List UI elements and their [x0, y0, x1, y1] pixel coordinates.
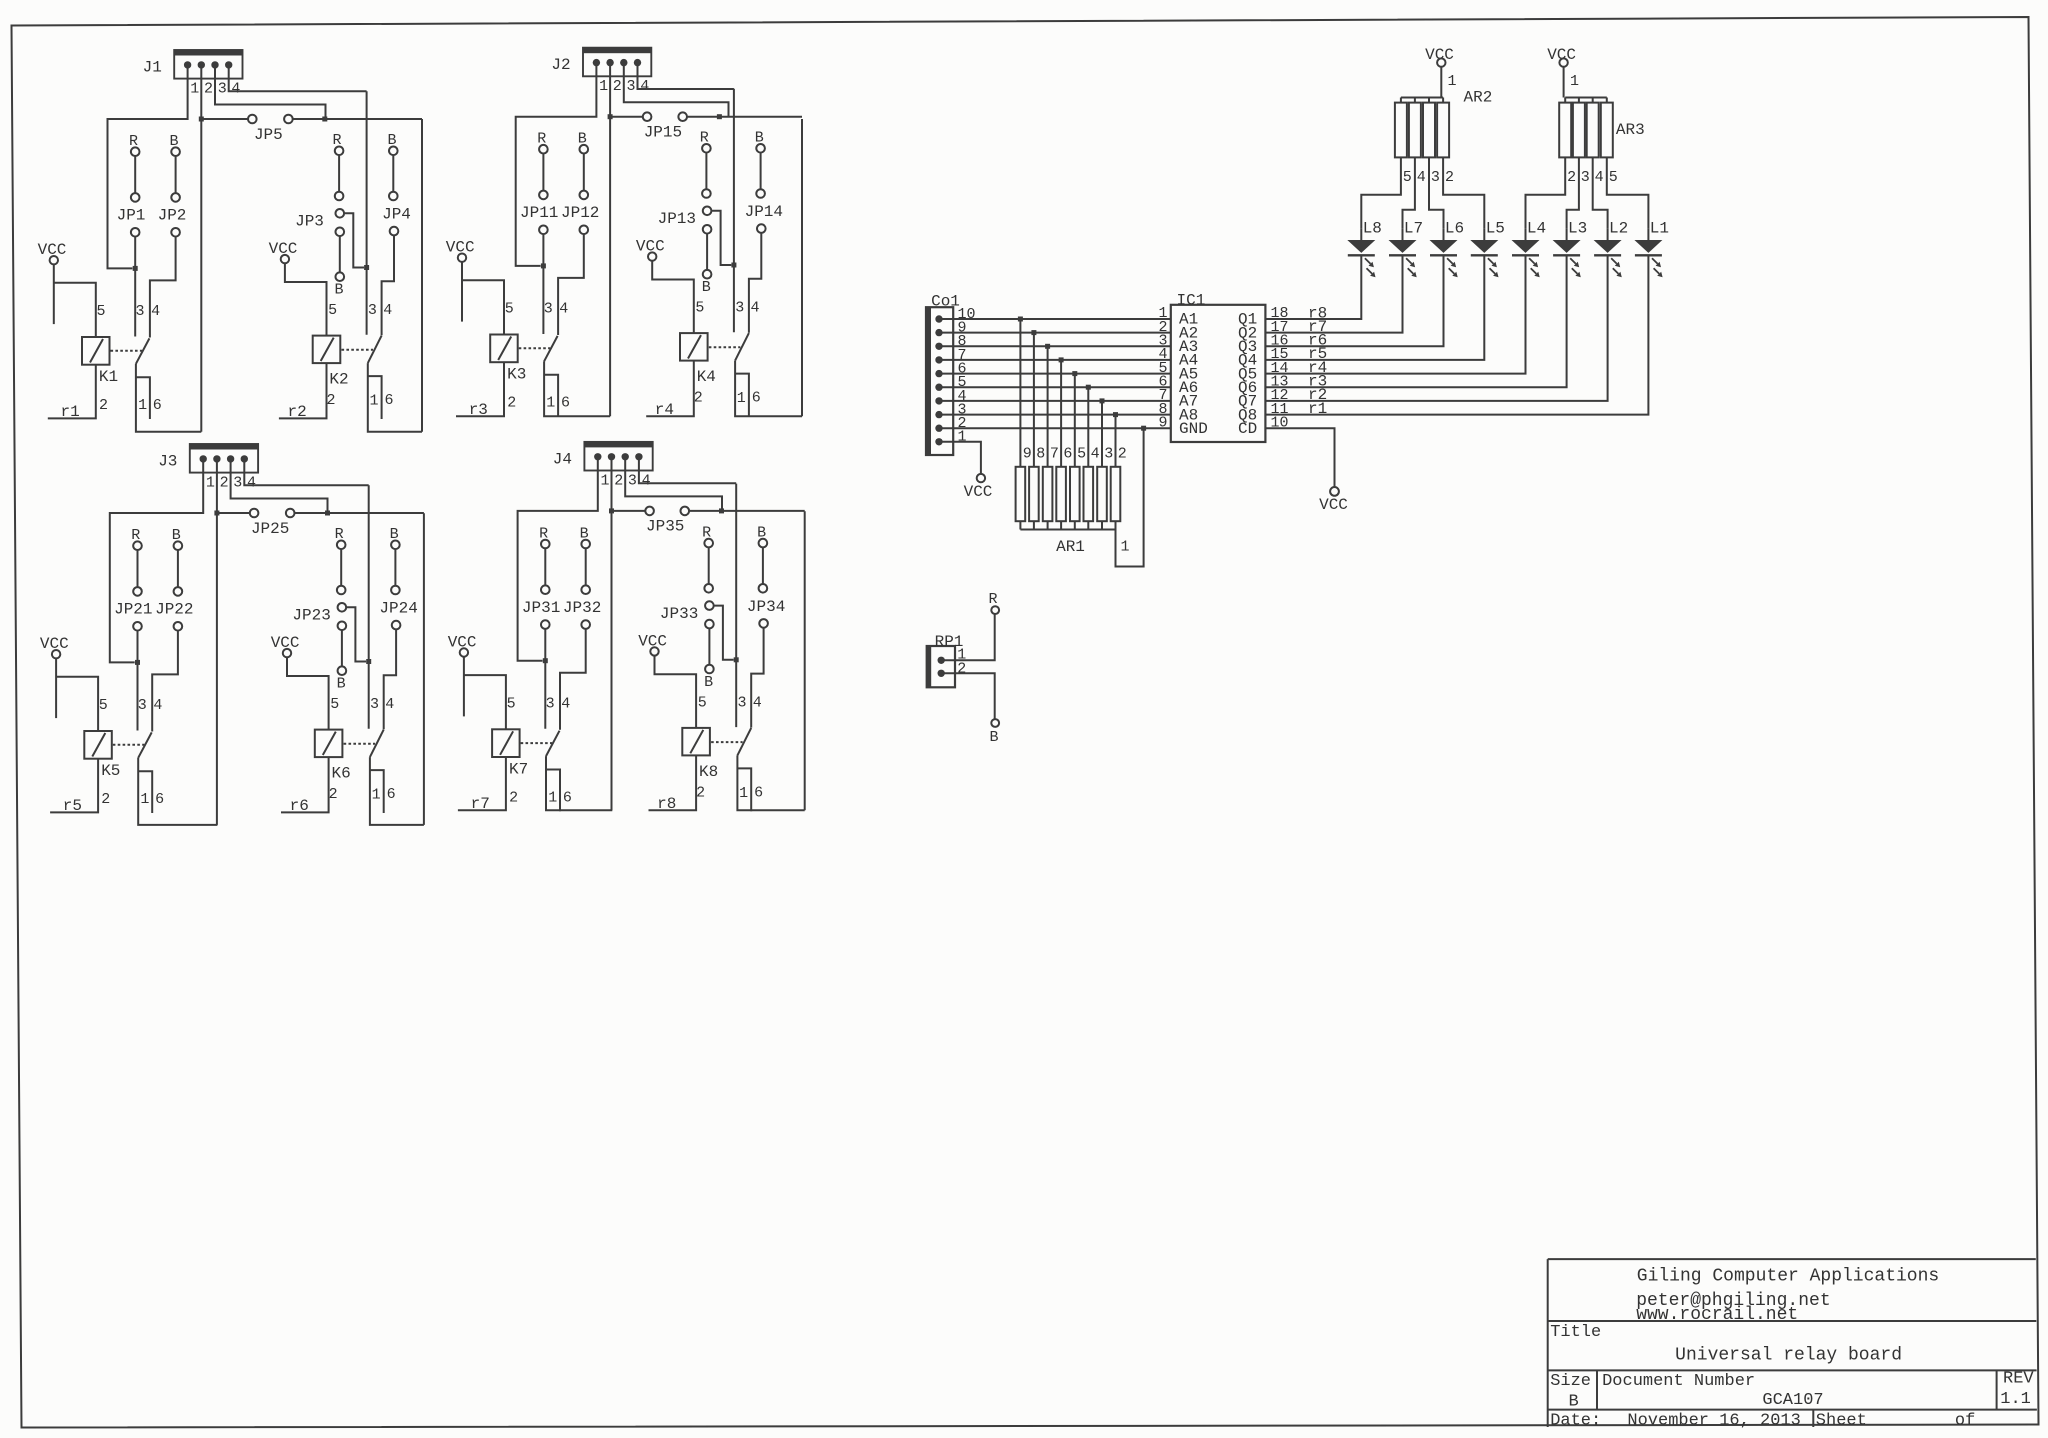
switch blade — [735, 333, 749, 361]
AR3 common bus — [1565, 97, 1607, 99]
svg-text:3: 3 — [737, 695, 746, 712]
svg-text:4: 4 — [1091, 445, 1100, 462]
svg-text:3: 3 — [546, 696, 555, 713]
svg-text:L6: L6 — [1445, 220, 1464, 238]
svg-text:7: 7 — [1050, 445, 1059, 462]
svg-text:4: 4 — [753, 695, 762, 712]
wire IC1 Q8 / net r1 — [1265, 256, 1648, 415]
wire Co1 pin 3 to IC1 pin 8 — [939, 414, 1171, 416]
contact 6 stub — [138, 771, 152, 813]
junction — [364, 265, 369, 270]
svg-text:K7: K7 — [509, 760, 528, 778]
svg-text:5: 5 — [1077, 445, 1086, 462]
wire Co1 pin 1 to VCC — [939, 442, 981, 474]
wire J1 pin 1 — [108, 65, 188, 269]
coil-contact link — [711, 741, 743, 743]
svg-text:Universal relay board: Universal relay board — [1675, 1346, 1902, 1366]
wire JP22 to contact 4 — [152, 631, 178, 732]
wire J3 pin 4 — [244, 459, 368, 485]
svg-text:Co1: Co1 — [931, 293, 960, 311]
svg-text:1: 1 — [1120, 539, 1129, 556]
junction — [609, 508, 614, 513]
switch blade — [737, 728, 751, 756]
wire JP11 to relay pole — [542, 234, 544, 334]
svg-text:JP15: JP15 — [644, 124, 682, 142]
svg-text:4: 4 — [153, 697, 162, 714]
svg-text:AR1: AR1 — [1056, 538, 1085, 556]
svg-text:2: 2 — [614, 472, 623, 489]
junction — [734, 657, 739, 662]
switch blade — [370, 730, 384, 758]
wire J1 pin 3 — [215, 65, 326, 119]
svg-text:JP24: JP24 — [379, 600, 417, 618]
wire IC1 Q1 / net r8 — [1265, 256, 1361, 319]
svg-text:3: 3 — [233, 475, 242, 492]
svg-text:1: 1 — [372, 787, 381, 804]
junction — [608, 114, 613, 119]
node R — [991, 606, 999, 614]
svg-text:JP34: JP34 — [747, 598, 785, 616]
svg-text:IC1: IC1 — [1176, 291, 1205, 309]
svg-text:4: 4 — [231, 81, 240, 98]
wire JP35 to right — [722, 510, 805, 512]
wire AR2.4 to L7 — [1403, 157, 1415, 228]
svg-text:2: 2 — [613, 78, 622, 95]
resistor AR1 element 6 — [1056, 467, 1066, 521]
svg-text:JP5: JP5 — [254, 126, 283, 144]
svg-text:3: 3 — [1431, 169, 1440, 186]
svg-text:K1: K1 — [99, 368, 118, 386]
svg-text:AR3: AR3 — [1616, 121, 1645, 139]
svg-text:5: 5 — [505, 301, 514, 318]
wire J3 pin 3 — [231, 459, 328, 513]
svg-text:1: 1 — [548, 790, 557, 807]
wire J2 pin 1 — [516, 63, 597, 266]
svg-text:2: 2 — [101, 791, 110, 808]
switch blade — [368, 336, 382, 364]
wire pin4 to pole — [368, 485, 370, 729]
svg-text:1: 1 — [369, 393, 378, 410]
svg-text:r2: r2 — [288, 403, 307, 421]
svg-text:5: 5 — [507, 696, 516, 713]
svg-text:6: 6 — [155, 791, 164, 808]
junction — [135, 660, 140, 665]
wire JP14 to contact 4 — [749, 233, 761, 333]
svg-text:JP13: JP13 — [658, 210, 696, 228]
svg-text:r7: r7 — [471, 795, 490, 813]
wire IC1 Q4 / net r5 — [1265, 256, 1484, 360]
contact 6 stub — [136, 377, 150, 419]
svg-text:Title: Title — [1550, 1323, 1601, 1342]
wire JP12 to contact 4 — [558, 234, 584, 335]
wire IC1 Q2 / net r7 — [1265, 256, 1402, 333]
svg-text:B: B — [337, 676, 346, 693]
wire VCC to coil pin 5 — [53, 264, 55, 324]
node B — [991, 719, 999, 727]
svg-text:K6: K6 — [331, 765, 350, 783]
svg-text:2: 2 — [99, 397, 108, 414]
relay coil K2 — [313, 336, 341, 364]
svg-text:6: 6 — [754, 784, 763, 801]
svg-text:JP32: JP32 — [563, 599, 601, 617]
junction — [1072, 371, 1077, 376]
relay coil K3 — [490, 335, 518, 363]
junction — [199, 117, 204, 122]
wire Co1 pin 9 to IC1 pin 2 — [939, 332, 1171, 334]
wire pin4 to pole — [735, 484, 737, 727]
connector J4 — [584, 442, 652, 471]
wire IC1 Q5 / net r4 — [1265, 256, 1525, 374]
svg-text:JP4: JP4 — [382, 206, 411, 224]
svg-text:JP22: JP22 — [155, 601, 193, 619]
svg-text:B: B — [704, 674, 713, 691]
LED L2 — [1594, 240, 1622, 253]
junction — [322, 117, 327, 122]
wire JP4 to contact 4 — [382, 235, 394, 335]
wire J4 pin 4 — [639, 457, 736, 483]
svg-text:K3: K3 — [507, 366, 526, 384]
svg-text:B: B — [989, 729, 998, 746]
wire JP33 to pole junction — [714, 606, 734, 660]
junction — [1100, 398, 1105, 403]
svg-text:JP1: JP1 — [117, 207, 146, 225]
svg-text:1: 1 — [138, 397, 147, 414]
svg-text:3: 3 — [735, 300, 744, 317]
wire JP1 to relay pole — [134, 237, 136, 337]
svg-text:L2: L2 — [1609, 220, 1628, 238]
svg-text:1: 1 — [958, 429, 967, 446]
svg-text:2: 2 — [326, 392, 335, 409]
svg-text:Date:: Date: — [1550, 1411, 1601, 1430]
wire Co1 pin 8 to IC1 pin 3 — [939, 345, 1171, 347]
svg-text:JP25: JP25 — [251, 520, 289, 538]
wire JP13 to pole junction — [711, 211, 731, 265]
svg-text:VCC: VCC — [1319, 496, 1348, 514]
wire AR1 pin 1 to GND row — [1116, 428, 1144, 566]
junction — [541, 263, 546, 268]
svg-text:1: 1 — [1570, 73, 1579, 90]
wire right side of K2 block — [421, 119, 423, 432]
wire J3 pin 1 — [110, 459, 203, 663]
svg-text:3: 3 — [628, 472, 637, 489]
resistor AR3 element 5 — [1601, 103, 1613, 158]
svg-text:2: 2 — [204, 81, 213, 98]
LED L8 — [1347, 240, 1375, 253]
svg-text:3: 3 — [1104, 445, 1113, 462]
svg-text:1: 1 — [1448, 73, 1457, 90]
svg-text:JP11: JP11 — [520, 204, 558, 222]
wire pin4 to pole — [366, 91, 368, 334]
svg-text:1: 1 — [206, 475, 215, 492]
AR2 common bus — [1401, 97, 1443, 99]
wire coil to r7 — [458, 757, 506, 810]
wire J2 pin 4 — [638, 63, 734, 89]
wire JP23 to pole junction — [346, 607, 366, 661]
svg-text:JP35: JP35 — [646, 518, 684, 536]
svg-text:JP31: JP31 — [522, 599, 560, 617]
svg-text:1: 1 — [190, 81, 199, 98]
wire VCC to coil pin 5 — [652, 261, 694, 333]
switch blade — [138, 732, 152, 757]
svg-text:4: 4 — [1595, 169, 1604, 186]
wire AR3.2 to L4 — [1526, 157, 1566, 228]
contact 6 stub — [370, 770, 384, 813]
svg-text:JP23: JP23 — [292, 607, 330, 625]
wire J1 pin 4 — [229, 65, 367, 91]
resistor AR2 element 2 — [1437, 103, 1449, 158]
svg-text:9: 9 — [1158, 414, 1167, 431]
svg-text:8: 8 — [1036, 445, 1045, 462]
wire blade to bottom — [735, 361, 802, 417]
svg-text:of: of — [1955, 1411, 1975, 1430]
svg-text:B: B — [1568, 1392, 1578, 1411]
wire J4 pin 2 — [611, 457, 613, 810]
wire VCC to AR3 pin 1 — [1563, 67, 1565, 98]
wire JP21 to relay pole — [137, 631, 139, 731]
AR1 common bus — [1020, 521, 1115, 529]
junction — [1113, 412, 1118, 417]
svg-text:2: 2 — [220, 475, 229, 492]
junction — [731, 263, 736, 268]
svg-text:r8: r8 — [657, 795, 676, 813]
svg-text:L1: L1 — [1650, 220, 1669, 238]
svg-text:2: 2 — [507, 395, 516, 412]
wire JP31 to relay pole — [544, 629, 546, 729]
svg-text:L4: L4 — [1527, 220, 1546, 238]
svg-text:6: 6 — [1063, 445, 1072, 462]
wire J1 pin 2 — [200, 65, 202, 432]
svg-text:JP12: JP12 — [561, 204, 599, 222]
wire coil to r2 — [279, 363, 327, 418]
svg-text:r1: r1 — [61, 403, 80, 421]
svg-text:2: 2 — [329, 786, 338, 803]
wire VCC to coil pin 5 — [55, 658, 57, 718]
wire J2 pin 3 — [624, 63, 729, 117]
svg-text:L7: L7 — [1404, 220, 1423, 238]
svg-text:Size: Size — [1550, 1372, 1591, 1391]
wire AR3.3 to L3 — [1567, 157, 1579, 228]
wire Co1 pin 6 to IC1 pin 5 — [939, 373, 1171, 375]
svg-text:4: 4 — [640, 78, 649, 95]
connector RP1 — [927, 646, 955, 687]
resistor AR2 element 5 — [1395, 103, 1407, 158]
wire JP24 to contact 4 — [384, 629, 396, 729]
resistor AR2 element 3 — [1423, 103, 1435, 158]
svg-text:R: R — [988, 591, 997, 608]
connector J3 — [190, 444, 258, 473]
svg-text:4: 4 — [559, 301, 568, 318]
wire coil to r3 — [456, 362, 504, 416]
junction — [1018, 317, 1023, 322]
junction — [1045, 344, 1050, 349]
wire blade to bottom — [370, 757, 424, 825]
junction — [133, 266, 138, 271]
resistor AR3 element 4 — [1587, 103, 1599, 158]
svg-text:4: 4 — [561, 696, 570, 713]
contact 6 stub — [544, 375, 558, 417]
wire VCC to coil pin 5 — [463, 657, 465, 717]
svg-text:CD: CD — [1238, 420, 1257, 438]
svg-text:JP33: JP33 — [660, 605, 698, 623]
svg-text:GND: GND — [1179, 420, 1208, 438]
svg-text:REV: REV — [2003, 1369, 2034, 1388]
wire IC1 Q6 / net r3 — [1265, 256, 1566, 387]
wire blade to bottom — [546, 756, 612, 810]
coil-contact link — [521, 742, 553, 744]
svg-text:K8: K8 — [699, 763, 718, 781]
coil-contact link — [709, 346, 741, 348]
svg-text:6: 6 — [563, 790, 572, 807]
svg-text:3: 3 — [218, 81, 227, 98]
LED L5 — [1470, 240, 1498, 253]
wire IC1 CD to VCC — [1265, 428, 1334, 487]
junction — [717, 114, 722, 119]
contact 6 stub — [737, 768, 751, 811]
resistor AR1 element 9 — [1016, 467, 1026, 521]
svg-text:3: 3 — [544, 301, 553, 318]
svg-text:5: 5 — [1403, 169, 1412, 186]
jumper JP23 lower pair — [338, 622, 347, 631]
resistor AR3 element 3 — [1573, 103, 1585, 158]
relay coil K4 — [680, 333, 708, 361]
svg-text:J3: J3 — [158, 453, 177, 471]
svg-text:Document Number: Document Number — [1602, 1372, 1755, 1391]
svg-text:AR2: AR2 — [1463, 89, 1492, 107]
wire IC1 Q7 / net r2 — [1265, 256, 1607, 401]
contact 6 stub — [735, 374, 749, 417]
LED L4 — [1512, 240, 1540, 253]
jumper JP3 lower pair — [336, 228, 345, 237]
svg-text:4: 4 — [383, 302, 392, 319]
junction — [1086, 385, 1091, 390]
svg-text:1: 1 — [600, 472, 609, 489]
svg-text:2: 2 — [696, 785, 705, 802]
wire IC1 Q3 / net r6 — [1265, 256, 1443, 346]
relay coil K1 — [82, 337, 110, 365]
wire Co1 pin 5 to IC1 pin 6 — [939, 386, 1171, 388]
svg-text:r5: r5 — [63, 797, 82, 815]
svg-text:J1: J1 — [143, 59, 162, 77]
svg-text:2: 2 — [1445, 169, 1454, 186]
wire Co1 pin 4 to IC1 pin 7 — [939, 400, 1171, 402]
junction — [543, 658, 548, 663]
svg-text:r1: r1 — [1308, 400, 1327, 418]
junction — [1141, 426, 1146, 431]
wire blade to bottom — [138, 758, 217, 825]
contact 6 stub — [546, 770, 560, 812]
coil-contact link — [111, 350, 143, 352]
wire AR2.3 to L6 — [1429, 157, 1444, 228]
svg-text:6: 6 — [561, 395, 570, 412]
wire J4 pin 3 — [625, 457, 722, 511]
svg-text:K4: K4 — [697, 368, 716, 386]
wire pin4 to pole — [733, 89, 735, 332]
svg-text:4: 4 — [1417, 169, 1426, 186]
wire AR3.4 to L2 — [1593, 157, 1608, 228]
wire JP5 to right — [325, 118, 422, 120]
relay coil K8 — [682, 728, 710, 756]
wire JP3 to pole junction — [344, 213, 364, 267]
junction — [366, 659, 371, 664]
wire coil to r8 — [649, 755, 697, 810]
jumper JP25 — [217, 512, 250, 514]
LED L7 — [1389, 240, 1417, 253]
connector J1 — [174, 50, 242, 79]
title block frame — [1548, 1258, 2036, 1260]
relay coil K7 — [492, 729, 519, 757]
svg-text:1: 1 — [140, 791, 149, 808]
svg-text:4: 4 — [151, 303, 160, 320]
svg-text:Sheet: Sheet — [1816, 1411, 1867, 1430]
wire VCC to coil pin 5 — [655, 656, 697, 728]
jumper JP33 lower pair — [705, 620, 714, 629]
coil-contact link — [519, 347, 551, 349]
resistor AR1 element 7 — [1043, 467, 1053, 521]
svg-text:9: 9 — [1023, 445, 1032, 462]
jumper JP5 — [201, 118, 248, 120]
svg-text:4: 4 — [642, 472, 651, 489]
svg-text:2: 2 — [1118, 445, 1127, 462]
svg-text:November 16, 2013: November 16, 2013 — [1627, 1411, 1800, 1430]
svg-text:B: B — [334, 282, 343, 299]
svg-text:5: 5 — [328, 302, 337, 319]
svg-text:Giling Computer Applications: Giling Computer Applications — [1637, 1267, 1939, 1287]
wire VCC to coil pin 5 — [287, 657, 329, 729]
resistor AR3 element 2 — [1559, 103, 1571, 158]
junction — [1031, 330, 1036, 335]
wire J4 pin 1 — [518, 457, 598, 661]
svg-text:3: 3 — [138, 697, 147, 714]
svg-text:1: 1 — [739, 785, 748, 802]
jumper JP15 — [610, 116, 643, 118]
connector J2 — [583, 48, 651, 77]
connector Co1 — [926, 307, 953, 455]
wire AR3.5 to L1 — [1607, 157, 1649, 228]
wire JP32 to contact 4 — [560, 629, 586, 730]
switch blade — [544, 336, 558, 361]
svg-text:L5: L5 — [1486, 220, 1505, 238]
resistor AR1 element 8 — [1029, 467, 1039, 521]
LED L1 — [1634, 240, 1662, 253]
junction — [719, 508, 724, 513]
resistor AR1 element 3 — [1097, 467, 1107, 521]
svg-text:JP2: JP2 — [158, 207, 187, 225]
contact 6 stub — [368, 376, 382, 419]
IC IC1 — [1171, 305, 1266, 442]
svg-text:r3: r3 — [469, 401, 488, 419]
wire JP2 to contact 4 — [150, 237, 176, 338]
svg-text:VCC: VCC — [1547, 46, 1576, 64]
svg-text:4: 4 — [247, 475, 256, 492]
wire right side of K6 block — [423, 513, 425, 825]
svg-text:J2: J2 — [551, 56, 570, 74]
svg-text:3: 3 — [626, 78, 635, 95]
svg-text:1: 1 — [546, 395, 555, 412]
svg-text:5: 5 — [96, 303, 105, 320]
svg-text:3: 3 — [1581, 169, 1590, 186]
svg-text:r4: r4 — [655, 401, 674, 419]
svg-text:5: 5 — [698, 695, 707, 712]
wire RP1 pin 1 to R — [941, 614, 995, 660]
power VCC — [1330, 487, 1339, 496]
wire Co1 pin 7 to IC1 pin 4 — [939, 359, 1171, 361]
wire coil to r5 — [50, 759, 98, 813]
wire VCC to coil pin 5 — [285, 263, 327, 335]
svg-text:2: 2 — [1567, 169, 1576, 186]
svg-text:J4: J4 — [553, 450, 572, 468]
resistor AR1 element 4 — [1084, 467, 1094, 521]
svg-text:2: 2 — [509, 790, 518, 807]
